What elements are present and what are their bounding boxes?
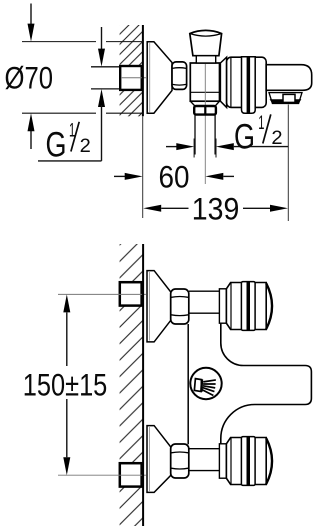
dim O70 upper arrow bbox=[30, 4, 32, 26]
dim O70 lower arrow bbox=[30, 130, 32, 149]
aerator leader / 139 extension line bbox=[287, 105, 289, 222]
handle barrel (front) bbox=[226, 283, 266, 330]
aerator housing bbox=[269, 93, 302, 104]
handle barrel (top view) bbox=[227, 57, 267, 107]
handle flange (front) bbox=[219, 289, 226, 323]
svg-text:150±15: 150±15 bbox=[23, 367, 108, 403]
escutcheon cone (top view) bbox=[147, 42, 172, 114]
handle grip band (top view) bbox=[242, 57, 256, 114]
wall hatching (top view) bbox=[120, 25, 143, 116]
handle grip band (front) bbox=[241, 282, 255, 331]
svg-text:2: 2 bbox=[271, 127, 282, 149]
centerline of valve (gray) bbox=[204, 64, 206, 184]
dim G1/2 outlet text bbox=[234, 112, 283, 157]
concealed fitting bottom (front view, bold) bbox=[120, 463, 142, 486]
hex nut bottom (front view) bbox=[171, 444, 189, 478]
spout (top view) bbox=[266, 65, 312, 91]
valve body (top view) bbox=[190, 63, 219, 101]
dim 150+-15 arrows bbox=[63, 294, 70, 312]
hex union nut (top view) bbox=[172, 62, 187, 90]
inlet centerline top bbox=[58, 293, 146, 295]
concealed union fitting (top view, bold) bbox=[120, 66, 146, 90]
svg-text:2: 2 bbox=[80, 135, 91, 157]
adapter between body and handle bbox=[220, 57, 226, 107]
shower outlet pipe (top view) bbox=[195, 115, 215, 155]
handle flange (front) bbox=[219, 444, 226, 478]
dim O70 extension lines bbox=[22, 42, 143, 114]
wall hatching (front view) bbox=[120, 244, 144, 526]
svg-text:60: 60 bbox=[159, 158, 190, 194]
svg-text:G: G bbox=[234, 117, 255, 157]
wall face line (top view) bbox=[142, 25, 144, 116]
dim G1/2 inlet text bbox=[46, 119, 91, 164]
outlet thread extension lines bbox=[194, 139, 216, 158]
dim 150+-15 line bbox=[66, 313, 68, 458]
inlet centerline bottom bbox=[58, 474, 146, 476]
svg-text:1: 1 bbox=[258, 112, 264, 134]
hex nut top (front view) bbox=[171, 289, 189, 324]
handle taper ring line bbox=[230, 438, 232, 484]
hose-union nut (bold) bbox=[194, 105, 216, 115]
svg-text:G: G bbox=[46, 125, 67, 165]
handle taper ring line bbox=[230, 283, 232, 329]
body stem right edge and spout arm outline bbox=[221, 324, 312, 449]
diverter knob bbox=[190, 30, 222, 63]
dim 60 bbox=[114, 175, 125, 177]
body stem left edge bbox=[187, 324, 189, 444]
shower symbol roundel bbox=[190, 368, 221, 399]
handle barrel (front) bbox=[226, 438, 266, 485]
neck bottom valve bbox=[189, 449, 220, 471]
handle grip band (front) bbox=[241, 437, 255, 486]
escutcheon cone top (front view) bbox=[147, 271, 171, 342]
supply pipe stub behind wall bbox=[91, 67, 122, 89]
dim G1/2 inlet arrows bbox=[101, 27, 103, 50]
handle end cap bbox=[266, 438, 272, 484]
escutcheon cone bottom (front view) bbox=[147, 426, 171, 493]
handle end cap bbox=[266, 283, 272, 329]
svg-text:139: 139 bbox=[192, 191, 240, 227]
wall face extension line down to dimensions bbox=[142, 116, 144, 218]
wall face line (front view) bbox=[142, 244, 144, 526]
dim G1/2 outlet bbox=[166, 146, 177, 148]
concealed fitting top (front view, bold) bbox=[120, 282, 142, 305]
svg-text:Ø70: Ø70 bbox=[5, 60, 54, 96]
body bottom chamfer to hose nut bbox=[190, 101, 219, 106]
dim 139 bbox=[143, 205, 161, 212]
dim G1/2 inlet leader bbox=[38, 160, 102, 162]
neck top valve bbox=[189, 291, 220, 313]
